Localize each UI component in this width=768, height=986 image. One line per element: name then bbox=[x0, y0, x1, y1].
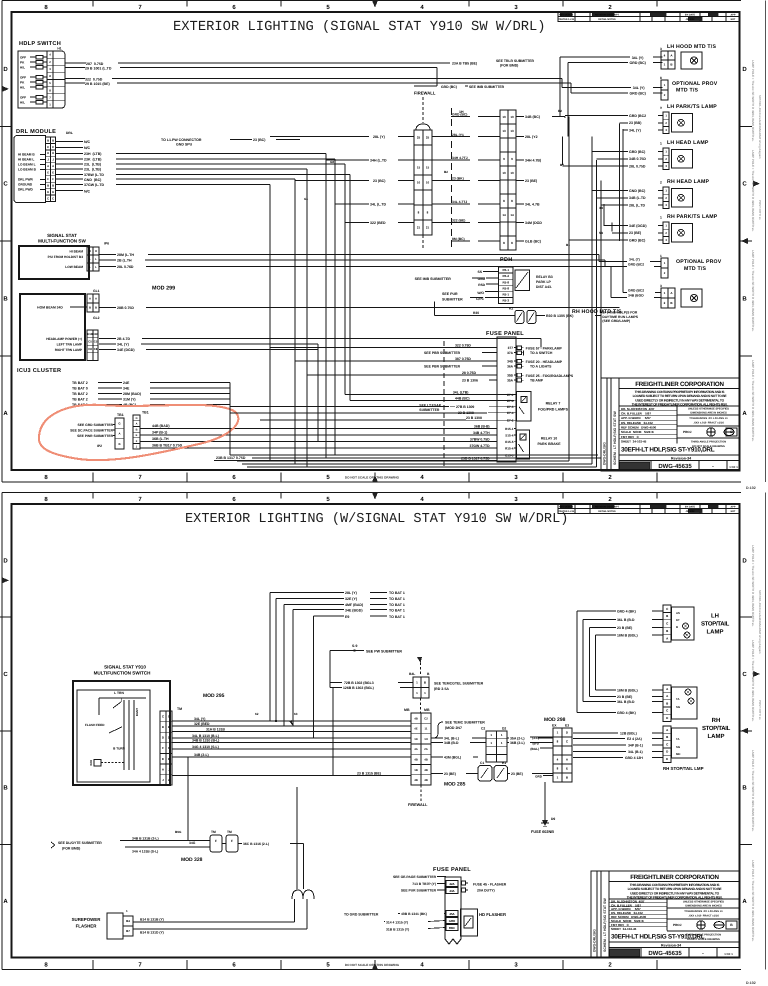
svg-text:LAMP POLE + The Arc SE WIDTH D: LAMP POLE + The Arc SE WIDTH D 4984, BMW… bbox=[751, 860, 755, 942]
svg-text:14: 14 bbox=[502, 213, 506, 217]
svg-text:E: E bbox=[52, 145, 54, 149]
svg-text:2: 2 bbox=[660, 181, 662, 185]
svg-text:FREIGHTLINER CORPORATION: FREIGHTLINER CORPORATION bbox=[635, 381, 724, 388]
svg-text:TO L1.PW CONNECTOR: TO L1.PW CONNECTOR bbox=[161, 138, 202, 142]
svg-text:23K (LTB): 23K (LTB) bbox=[84, 158, 101, 162]
svg-text:15: 15 bbox=[426, 166, 430, 170]
svg-text:4A: 4A bbox=[414, 747, 418, 751]
svg-text:FUSE PANEL: FUSE PANEL bbox=[433, 867, 471, 873]
svg-text:34L (Y): 34L (Y) bbox=[633, 86, 645, 90]
svg-text:SEE PWR SUBMITTER: SEE PWR SUBMITTER bbox=[77, 434, 113, 438]
svg-text:SEE PBR SUBMITTER: SEE PBR SUBMITTER bbox=[424, 351, 461, 355]
svg-text:C2: C2 bbox=[481, 727, 485, 731]
svg-text:34P (B-1): 34P (B-1) bbox=[628, 743, 643, 747]
svg-text:(BGL): (BGL) bbox=[530, 747, 539, 751]
svg-text:MJT: MJT bbox=[731, 510, 736, 513]
svg-text:36B (B-B): 36B (B-B) bbox=[474, 424, 490, 428]
svg-text:H1: H1 bbox=[57, 47, 61, 51]
svg-text:35A (2-L): 35A (2-L) bbox=[510, 737, 525, 741]
svg-text:UNLESS OTHERWISE SPECIFIED: UNLESS OTHERWISE SPECIFIED bbox=[688, 408, 729, 411]
svg-text:MULTI-FUNCTION SW: MULTI-FUNCTION SW bbox=[38, 239, 86, 244]
svg-text:DWG-45635: DWG-45635 bbox=[648, 950, 682, 957]
svg-text:H: H bbox=[52, 151, 54, 155]
svg-text:a: a bbox=[660, 106, 662, 110]
svg-text:SEE GE.PAGE SUBMITTER: SEE GE.PAGE SUBMITTER bbox=[393, 875, 437, 879]
svg-text:LAMP: LAMP bbox=[707, 629, 724, 636]
svg-text:RELAY 7: RELAY 7 bbox=[546, 402, 561, 406]
svg-text:UNLESS OTHERWISE SPECIFIED: UNLESS OTHERWISE SPECIFIED bbox=[683, 901, 724, 904]
svg-text:L: L bbox=[95, 265, 97, 269]
svg-text:34E (DGD): 34E (DGD) bbox=[629, 224, 647, 228]
svg-text:PROJ: PROJ bbox=[673, 923, 682, 927]
svg-text:N/C: N/C bbox=[84, 146, 91, 150]
svg-text:D: D bbox=[47, 190, 49, 194]
svg-text:32E (Y): 32E (Y) bbox=[345, 597, 357, 601]
svg-text:2B (L.TH: 2B (L.TH bbox=[117, 259, 132, 263]
svg-text:23 B 1306: 23 B 1306 bbox=[462, 378, 478, 382]
svg-text:21: 21 bbox=[417, 226, 421, 230]
svg-text:Revision-34: Revision-34 bbox=[661, 944, 681, 948]
svg-text:37GW (L.TD: 37GW (L.TD bbox=[84, 183, 105, 187]
svg-text:GRD (BC2: GRD (BC2 bbox=[628, 289, 644, 293]
svg-text:S-9: S-9 bbox=[352, 644, 357, 648]
svg-text:H/L: H/L bbox=[20, 101, 25, 105]
svg-text:REVISION DESCRIPT: REVISION DESCRIPT bbox=[595, 14, 620, 17]
svg-text:23 (BC): 23 (BC) bbox=[253, 138, 265, 142]
svg-text:GRD: GRD bbox=[535, 775, 543, 779]
svg-text:20A DUTY): 20A DUTY) bbox=[477, 889, 495, 893]
svg-text:C5: C5 bbox=[94, 340, 98, 344]
svg-text:HOM BEAM 34D: HOM BEAM 34D bbox=[37, 306, 63, 310]
svg-text:36B (L.TH: 36B (L.TH bbox=[152, 437, 169, 441]
svg-text:23 (BC): 23 (BC) bbox=[373, 179, 385, 183]
svg-text:PARK BRAKE: PARK BRAKE bbox=[537, 442, 561, 446]
svg-text:B4L: B4L bbox=[409, 672, 415, 676]
svg-text:E: E bbox=[47, 145, 49, 149]
svg-text:28L (Y1: 28L (Y1 bbox=[452, 133, 464, 137]
svg-text:34E (DGD): 34E (DGD) bbox=[117, 348, 135, 352]
svg-text:A: A bbox=[3, 410, 8, 417]
svg-text:28L (Y): 28L (Y) bbox=[345, 591, 357, 595]
svg-text:14: 14 bbox=[510, 213, 514, 217]
svg-text:28M (BAD): 28M (BAD) bbox=[123, 392, 141, 396]
svg-text:CH. B.FULLER 5/97: CH. B.FULLER 5/97 bbox=[621, 411, 651, 415]
svg-text:LEFT TRN LAMP: LEFT TRN LAMP bbox=[57, 343, 83, 347]
svg-text:SCHEM - LT HDLP,SIG STAT SW: SCHEM - LT HDLP,SIG STAT SW bbox=[613, 411, 617, 465]
svg-text:35B: 35B bbox=[507, 373, 514, 377]
svg-text:POST PATH ss: POST PATH ss bbox=[758, 200, 762, 220]
svg-text:322 0.75D: 322 0.75D bbox=[85, 78, 103, 82]
svg-text:EXTERIOR LIGHTING (SIGNAL STAT: EXTERIOR LIGHTING (SIGNAL STAT Y910 SW W… bbox=[173, 20, 546, 35]
svg-text:23 B (BE): 23 B (BE) bbox=[617, 695, 632, 699]
svg-text:GLB (BC): GLB (BC) bbox=[525, 240, 541, 244]
svg-text:4MF (BAD): 4MF (BAD) bbox=[345, 603, 363, 607]
svg-text:EX: EX bbox=[552, 724, 557, 728]
svg-text:SUBMITTER: SUBMITTER bbox=[419, 408, 440, 412]
svg-text:H/L: H/L bbox=[20, 86, 25, 90]
svg-text:SEE TEMC SUBMITTER: SEE TEMC SUBMITTER bbox=[445, 721, 485, 725]
svg-text:32E (BED: 32E (BED bbox=[194, 722, 210, 726]
svg-text:DRL PWD: DRL PWD bbox=[18, 188, 34, 192]
svg-text:314 4 1315 (Y): 314 4 1315 (Y) bbox=[386, 921, 408, 925]
svg-text:C8: C8 bbox=[94, 347, 98, 351]
svg-text:23L (LTB): 23L (LTB) bbox=[84, 163, 101, 167]
svg-text:11: 11 bbox=[425, 727, 428, 731]
svg-text:DIMENSIONS ARE IN INCHES: DIMENSIONS ARE IN INCHES bbox=[685, 904, 722, 907]
svg-text:E1: E1 bbox=[502, 761, 506, 765]
svg-text:L: L bbox=[95, 257, 97, 261]
svg-text:10: 10 bbox=[510, 171, 514, 175]
svg-text:DRL PWR: DRL PWR bbox=[18, 178, 34, 182]
svg-text:B7: B7 bbox=[126, 929, 130, 933]
svg-text:EXTERIOR LIGHTING (W/SIGNAL ST: EXTERIOR LIGHTING (W/SIGNAL STAT Y910 SW… bbox=[185, 512, 568, 527]
svg-text:LAMP POLE + The Arc SE WIDTH D: LAMP POLE + The Arc SE WIDTH D 4984, BMW… bbox=[751, 250, 755, 332]
svg-text:A: A bbox=[52, 164, 54, 168]
svg-text:OFF: OFF bbox=[20, 96, 26, 100]
svg-text:B: B bbox=[742, 295, 747, 302]
svg-text:R30 B 1305 (BK): R30 B 1305 (BK) bbox=[546, 314, 573, 318]
svg-text:H/L: H/L bbox=[20, 66, 25, 70]
svg-text:SIGNAL STAT Y910: SIGNAL STAT Y910 bbox=[104, 665, 146, 670]
svg-text:B: B bbox=[95, 306, 97, 310]
svg-text:SUREPOWER: SUREPOWER bbox=[72, 917, 102, 922]
svg-text:A: A bbox=[742, 898, 747, 905]
svg-text:FMT REV C: FMT REV C bbox=[621, 435, 640, 439]
svg-text:28 0.75D: 28 0.75D bbox=[462, 371, 476, 375]
svg-text:TOLERANCES .XX ±.03 ANG ±1: TOLERANCES .XX ±.03 ANG ±1 bbox=[689, 417, 728, 420]
svg-text:DWG-45635: DWG-45635 bbox=[658, 463, 692, 470]
svg-text:34G 4 1310 (S-L): 34G 4 1310 (S-L) bbox=[192, 745, 219, 749]
svg-text:DO NOT SCALE OFF THIS DRAWING: DO NOT SCALE OFF THIS DRAWING bbox=[345, 963, 400, 967]
svg-text:LAMP POLE + The Arc SE WIDTH D: LAMP POLE + The Arc SE WIDTH D 4984, BMW… bbox=[751, 750, 755, 832]
svg-text:12B (BGL): 12B (BGL) bbox=[620, 731, 637, 735]
svg-text:34L (B-1): 34L (B-1) bbox=[628, 750, 643, 754]
svg-text:23 B (BE): 23 B (BE) bbox=[617, 626, 632, 630]
svg-text:TO A SWITCH: TO A SWITCH bbox=[530, 351, 553, 355]
svg-text:Revision-34: Revision-34 bbox=[671, 457, 691, 461]
svg-text:MOD 285: MOD 285 bbox=[444, 782, 466, 788]
svg-text:REVISION DESCRIPT: REVISION DESCRIPT bbox=[595, 506, 620, 509]
svg-text:(SEE GRD/LAMP): (SEE GRD/LAMP) bbox=[602, 319, 630, 323]
svg-text:B: B bbox=[676, 625, 678, 629]
svg-text:D1B: D1B bbox=[93, 332, 99, 336]
svg-text:GRD (BC): GRD (BC) bbox=[629, 150, 645, 154]
svg-text:34B (BC): 34B (BC) bbox=[525, 115, 540, 119]
svg-text:34H 4.7B): 34H 4.7B) bbox=[525, 159, 541, 163]
svg-text:REV DESCR: REV DESCR bbox=[559, 506, 573, 509]
svg-text:POST PATH ss: POST PATH ss bbox=[758, 700, 762, 720]
svg-text:28L (Y): 28L (Y) bbox=[373, 135, 385, 139]
svg-text:10: 10 bbox=[502, 115, 506, 119]
svg-text:LOW BEAM: LOW BEAM bbox=[65, 265, 83, 269]
svg-text:HEADLAMP POWER (+): HEADLAMP POWER (+) bbox=[46, 337, 82, 341]
svg-text:SEE PW SUBMITTER: SEE PW SUBMITTER bbox=[366, 649, 402, 653]
svg-text:N/C: N/C bbox=[84, 189, 91, 193]
svg-text:F: F bbox=[231, 839, 233, 843]
svg-text:4B: 4B bbox=[414, 757, 418, 761]
svg-text:37BW 0.75D: 37BW 0.75D bbox=[470, 437, 490, 441]
svg-text:387 0.75D: 387 0.75D bbox=[455, 357, 471, 361]
svg-text:(RD 3-5A: (RD 3-5A bbox=[434, 687, 449, 691]
svg-text:DRL MODULE: DRL MODULE bbox=[16, 129, 56, 135]
svg-text:23 (BE): 23 (BE) bbox=[629, 231, 641, 235]
svg-text:34L (L.TD: 34L (L.TD bbox=[370, 202, 387, 206]
svg-text:A: A bbox=[742, 410, 747, 417]
svg-text:4B: 4B bbox=[424, 778, 428, 782]
svg-text:ICU3 CLUSTER: ICU3 CLUSTER bbox=[17, 368, 61, 374]
svg-text:DS. RELEASE 34-102: DS. RELEASE 34-102 bbox=[621, 421, 653, 425]
svg-text:B: B bbox=[47, 183, 49, 187]
svg-text:SCALE NONE SIZE B: SCALE NONE SIZE B bbox=[621, 430, 655, 434]
svg-text:HDLP SWITCH: HDLP SWITCH bbox=[19, 41, 61, 47]
svg-text:TB BAT 0: TB BAT 0 bbox=[72, 387, 88, 391]
svg-text:42A: 42A bbox=[449, 882, 455, 886]
svg-text:SIGNAL STAT: SIGNAL STAT bbox=[47, 233, 77, 238]
svg-text:36L B (B-D: 36L B (B-D bbox=[617, 618, 635, 622]
svg-text:L: L bbox=[89, 257, 91, 261]
svg-text:28L (Y2: 28L (Y2 bbox=[525, 135, 538, 139]
svg-text:PDH: PDH bbox=[500, 257, 513, 263]
svg-text:SG: SG bbox=[676, 745, 680, 749]
svg-text:4B: 4B bbox=[424, 768, 428, 772]
svg-text:23L (LTB): 23L (LTB) bbox=[84, 168, 101, 172]
svg-text:B: B bbox=[52, 138, 54, 142]
svg-text:13: 13 bbox=[510, 129, 514, 133]
svg-text:23 (BE): 23 (BE) bbox=[444, 772, 456, 776]
svg-text:TO BAT 1: TO BAT 1 bbox=[389, 603, 405, 607]
svg-text:34B (B-D: 34B (B-D bbox=[444, 741, 459, 745]
svg-text:FIREWALL: FIREWALL bbox=[414, 91, 436, 96]
svg-text:GL1: GL1 bbox=[93, 289, 100, 293]
svg-text:23 (BE): 23 (BE) bbox=[511, 772, 523, 776]
svg-text:34H (L.TD: 34H (L.TD bbox=[370, 159, 387, 163]
svg-text:322 0.75D: 322 0.75D bbox=[455, 344, 471, 348]
svg-text:MD: MD bbox=[676, 752, 680, 756]
svg-text:B: B bbox=[118, 442, 120, 446]
svg-text:SS: SS bbox=[478, 270, 483, 274]
svg-text:18M B (BGL): 18M B (BGL) bbox=[617, 688, 638, 692]
svg-text:E: E bbox=[52, 171, 54, 175]
svg-text:13: 13 bbox=[502, 129, 506, 133]
svg-text:E9: E9 bbox=[345, 615, 349, 619]
svg-text:PK: PK bbox=[20, 61, 25, 65]
svg-text:DRL: DRL bbox=[66, 131, 73, 135]
svg-text:E: E bbox=[136, 434, 138, 437]
svg-text:28L (L.TD: 28L (L.TD bbox=[629, 203, 646, 207]
svg-text:STOP/TAIL: STOP/TAIL bbox=[702, 725, 731, 732]
svg-text:24E: 24E bbox=[123, 381, 130, 385]
svg-text:E3: E3 bbox=[565, 724, 569, 728]
svg-text:S15-4: S15-4 bbox=[505, 433, 514, 437]
svg-text:SEE DC.PACE SUBMITTER: SEE DC.PACE SUBMITTER bbox=[70, 429, 113, 433]
svg-text:PROJ: PROJ bbox=[683, 430, 692, 434]
svg-text:1H: 1H bbox=[424, 737, 428, 741]
svg-text:H: H bbox=[95, 249, 97, 253]
svg-text:SRT/DRL,Jtm/Freiwheld/DIAGRAM: SRT/DRL,Jtm/Freiwheld/DIAGRAM Wiring dia… bbox=[758, 590, 762, 654]
svg-text:FUSE 602NB: FUSE 602NB bbox=[531, 830, 554, 834]
svg-text:RH STOP/TAIL LMP: RH STOP/TAIL LMP bbox=[663, 766, 704, 771]
svg-text:LH HOOD MTD T/S: LH HOOD MTD T/S bbox=[667, 44, 716, 50]
svg-text:34L (Y): 34L (Y) bbox=[629, 128, 641, 132]
svg-text:MOD 298: MOD 298 bbox=[544, 717, 566, 723]
svg-text:34E (BGD): 34E (BGD) bbox=[345, 608, 363, 612]
svg-text:MOD 299: MOD 299 bbox=[152, 286, 175, 292]
svg-text:34L (Y): 34L (Y) bbox=[117, 343, 129, 347]
svg-text:RELAY B3: RELAY B3 bbox=[536, 275, 553, 279]
svg-text:G: G bbox=[118, 421, 120, 425]
svg-text:D-102: D-102 bbox=[746, 486, 756, 490]
svg-text:B2: B2 bbox=[444, 170, 448, 174]
svg-text:GRD (BC): GRD (BC) bbox=[630, 61, 646, 65]
svg-text:A: A bbox=[136, 423, 138, 426]
svg-text:TO BAT 1: TO BAT 1 bbox=[389, 615, 405, 619]
svg-text:SG: SG bbox=[676, 705, 680, 709]
svg-text:SEE DL/GYTE SUBMITTER: SEE DL/GYTE SUBMITTER bbox=[58, 841, 102, 845]
svg-text:322 (BE): 322 (BE) bbox=[452, 219, 465, 223]
svg-text:E: E bbox=[162, 757, 164, 761]
svg-text:SEE PBR SUBMITTER: SEE PBR SUBMITTER bbox=[424, 364, 461, 368]
svg-text:FOG/PRD LAMPS: FOG/PRD LAMPS bbox=[538, 408, 569, 412]
svg-text:C2: C2 bbox=[424, 716, 428, 720]
svg-text:SHEET 34-102-45: SHEET 34-102-45 bbox=[611, 927, 637, 931]
svg-text:FLASH FEED: FLASH FEED bbox=[85, 723, 105, 727]
svg-text:MB: MB bbox=[404, 708, 410, 712]
svg-text:DIST A43.: DIST A43. bbox=[536, 285, 552, 289]
svg-text:A: A bbox=[47, 164, 49, 168]
svg-text:34P (B-1): 34P (B-1) bbox=[152, 431, 167, 435]
svg-text:27B B 1309: 27B B 1309 bbox=[456, 405, 474, 409]
svg-text:3: 3 bbox=[660, 47, 662, 51]
svg-text:.XXX ±.010 FRACT ±1/16: .XXX ±.010 FRACT ±1/16 bbox=[688, 915, 719, 918]
svg-text:8: 8 bbox=[660, 76, 662, 80]
svg-text:GL2: GL2 bbox=[93, 316, 100, 320]
svg-text:LAMP POLE + The Arc SE WIDTH D: LAMP POLE + The Arc SE WIDTH D 4984, BMW… bbox=[751, 545, 755, 627]
svg-text:DR. M.JOHNSTON 4/97: DR. M.JOHNSTON 4/97 bbox=[621, 407, 655, 411]
svg-text:OPTIONAL PROV: OPTIONAL PROV bbox=[672, 81, 718, 87]
svg-text:DETAIL NOTES: DETAIL NOTES bbox=[598, 510, 616, 513]
svg-text:.XXX ±.010 FRACT ±1/16: .XXX ±.010 FRACT ±1/16 bbox=[693, 422, 724, 425]
svg-text:R5D: R5D bbox=[478, 283, 485, 287]
svg-text:TM: TM bbox=[211, 830, 216, 834]
svg-text:H: H bbox=[89, 249, 91, 253]
svg-text:4E: 4E bbox=[414, 727, 418, 731]
svg-text:D: D bbox=[3, 66, 8, 73]
svg-text:R5-1: R5-1 bbox=[502, 268, 509, 272]
svg-text:FUSE 57 - PARKLAMP: FUSE 57 - PARKLAMP bbox=[526, 347, 563, 351]
svg-text:DWG-DRL/SIG: DWG-DRL/SIG bbox=[603, 442, 607, 465]
svg-text:PK: PK bbox=[20, 81, 25, 85]
svg-text:FIREWALL: FIREWALL bbox=[408, 803, 428, 807]
svg-text:10: 10 bbox=[510, 115, 514, 119]
svg-text:44B (BC): 44B (BC) bbox=[455, 396, 470, 400]
svg-text:RH HEAD LAMP: RH HEAD LAMP bbox=[667, 179, 710, 185]
svg-text:A: A bbox=[118, 432, 120, 436]
svg-text:C: C bbox=[52, 196, 54, 200]
svg-text:15: 15 bbox=[417, 166, 421, 170]
svg-text:1D: 1D bbox=[414, 737, 418, 741]
svg-text:21: 21 bbox=[426, 226, 430, 230]
svg-text:P/U FROM HOLDIST B3: P/U FROM HOLDIST B3 bbox=[48, 255, 84, 259]
svg-text:25: 25 bbox=[426, 136, 430, 140]
svg-text:35A: 35A bbox=[507, 378, 514, 382]
svg-text:RH PARK/TS LAMP: RH PARK/TS LAMP bbox=[667, 214, 718, 220]
svg-text:E: E bbox=[47, 171, 49, 175]
svg-text:TB1: TB1 bbox=[117, 413, 124, 417]
svg-text:23 B 1308: 23 B 1308 bbox=[466, 416, 482, 420]
svg-text:TM: TM bbox=[227, 830, 232, 834]
svg-text:DIMENSIONS ARE IN INCHES: DIMENSIONS ARE IN INCHES bbox=[690, 411, 727, 414]
svg-text:APP. D.WARD 5/97: APP. D.WARD 5/97 bbox=[621, 416, 651, 420]
svg-text:1B: 1B bbox=[414, 768, 418, 772]
svg-text:34B 4.7TH: 34B 4.7TH bbox=[473, 431, 490, 435]
svg-text:23 (BK): 23 (BK) bbox=[452, 177, 464, 181]
svg-text:DT: DT bbox=[676, 618, 680, 622]
svg-text:RH: RH bbox=[712, 717, 721, 724]
svg-text:B: B bbox=[136, 428, 138, 431]
svg-text:PARK LP: PARK LP bbox=[536, 280, 552, 284]
svg-text:126B B 1302 (BGL): 126B B 1302 (BGL) bbox=[343, 686, 374, 690]
svg-text:25: 25 bbox=[417, 136, 421, 140]
svg-text:34L 4.7TJ: 34L 4.7TJ bbox=[452, 200, 467, 204]
svg-text:SEE PUR SUBMITTER: SEE PUR SUBMITTER bbox=[401, 889, 437, 893]
svg-text:APP: APP bbox=[731, 506, 736, 509]
svg-text:RBC: RBC bbox=[449, 926, 456, 930]
svg-text:LH PARK/TS LAMP: LH PARK/TS LAMP bbox=[667, 104, 717, 110]
svg-text:23 B 1315 (BE): 23 B 1315 (BE) bbox=[357, 772, 381, 776]
svg-text:TO BAT 1: TO BAT 1 bbox=[389, 597, 405, 601]
svg-text:B: B bbox=[3, 785, 8, 792]
svg-text:W/O: W/O bbox=[477, 291, 484, 295]
svg-text:B: B bbox=[3, 295, 8, 302]
svg-text:34B B 1310 (B-L): 34B B 1310 (B-L) bbox=[192, 739, 219, 743]
svg-text:1: 1 bbox=[660, 216, 662, 220]
svg-text:E: E bbox=[666, 757, 668, 761]
svg-text:A: A bbox=[89, 297, 91, 301]
svg-text:SEE IMB SUBMITTER: SEE IMB SUBMITTER bbox=[415, 277, 452, 281]
svg-text:LO BEAM L: LO BEAM L bbox=[18, 163, 36, 167]
svg-text:BY DATE: BY DATE bbox=[685, 506, 696, 509]
svg-text:STOP/TAIL: STOP/TAIL bbox=[701, 621, 730, 628]
svg-text:MTD T/S: MTD T/S bbox=[676, 88, 698, 94]
svg-text:30EFH-LT HDLP,SIG ST-Y910,DRL: 30EFH-LT HDLP,SIG ST-Y910,DRL bbox=[611, 934, 705, 941]
svg-text:G1: G1 bbox=[304, 197, 308, 201]
svg-text:D: D bbox=[136, 417, 138, 420]
svg-text:SUBMITTER: SUBMITTER bbox=[442, 298, 463, 302]
svg-text:MTD T/S: MTD T/S bbox=[684, 266, 706, 272]
svg-text:10: 10 bbox=[426, 181, 430, 185]
svg-text:TB BAT 2: TB BAT 2 bbox=[72, 381, 88, 385]
svg-text:B4: B4 bbox=[126, 919, 130, 923]
svg-text:TA: TA bbox=[676, 697, 680, 701]
svg-text:R15-4: R15-4 bbox=[505, 446, 514, 450]
svg-text:36B (2-L): 36B (2-L) bbox=[510, 741, 525, 745]
svg-text:31M (Y): 31M (Y) bbox=[123, 398, 136, 402]
svg-text:FUSE PANEL: FUSE PANEL bbox=[486, 331, 524, 337]
svg-text:IP2: IP2 bbox=[97, 444, 102, 448]
svg-text:TO A LIGHTS: TO A LIGHTS bbox=[530, 365, 552, 369]
svg-text:FLASHER: FLASHER bbox=[76, 924, 98, 929]
svg-text:34A 4 131B (S-L): 34A 4 131B (S-L) bbox=[132, 850, 158, 854]
svg-text:23 (BE): 23 (BE) bbox=[525, 179, 537, 183]
svg-text:TO BAT 1: TO BAT 1 bbox=[389, 608, 405, 612]
svg-text:34L B 1310 (B-L): 34L B 1310 (B-L) bbox=[192, 734, 219, 738]
svg-text:APP: APP bbox=[731, 14, 736, 17]
svg-text:E: E bbox=[566, 767, 568, 771]
svg-text:31H B 131B: 31H B 131B bbox=[206, 728, 225, 732]
svg-text:AS: AS bbox=[676, 611, 680, 615]
svg-text:C1: C1 bbox=[480, 761, 484, 765]
svg-text:F: F bbox=[47, 177, 49, 181]
